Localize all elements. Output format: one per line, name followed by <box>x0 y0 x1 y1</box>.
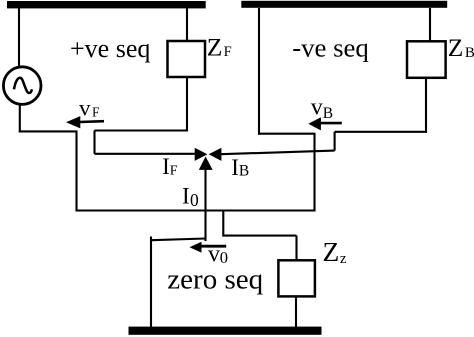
wire: ZB return horizontal <box>335 131 427 133</box>
wire: IF horizontal to junction <box>95 153 197 155</box>
arrow vF <box>66 116 80 128</box>
wire: slanted link from I0 to left drop <box>152 239 206 241</box>
arrow vB <box>308 117 321 130</box>
svg-text:F: F <box>92 105 100 120</box>
svg-text:zero seq: zero seq <box>167 263 263 295</box>
impedance ZF box <box>168 41 206 77</box>
svg-text:Z: Z <box>207 33 223 62</box>
impedance ZB box <box>407 41 446 78</box>
positive-sequence bus bar <box>7 1 206 8</box>
arrow head I0 <box>199 157 213 170</box>
wire: right vertical drop to common node <box>313 134 315 212</box>
zero-sequence reference bus bar <box>129 327 322 335</box>
svg-text:+ve seq: +ve seq <box>70 34 150 63</box>
svg-text:I: I <box>162 154 170 179</box>
wire: left vertical drop to common node <box>75 131 77 211</box>
svg-text:B: B <box>465 45 474 61</box>
wire: -ve bus down left side <box>258 8 260 135</box>
wire: -ve bus down to ZB <box>429 8 431 41</box>
AC source V1 circle <box>3 67 41 105</box>
wire: horizontal to Zz <box>223 235 296 237</box>
arrow head IF <box>195 148 208 161</box>
svg-text:0: 0 <box>220 248 228 267</box>
wire: I0 vertical from junction <box>204 168 206 241</box>
wire: IB slanted to junction <box>221 151 335 155</box>
wire: ZF bottom down <box>186 77 188 132</box>
svg-text:F: F <box>170 164 178 179</box>
wire: horizontal to vB node <box>258 133 316 135</box>
wire: short vertical at x=94.5 <box>93 131 95 154</box>
wire: +ve bus down to ZF <box>186 8 188 41</box>
svg-text:-ve seq: -ve seq <box>292 32 369 62</box>
wire: AC source bottom down <box>19 104 21 132</box>
wire: down into Zz top <box>295 236 297 261</box>
svg-text:Z: Z <box>448 33 464 62</box>
wire: common horizontal node <box>76 209 316 211</box>
svg-text:I: I <box>182 184 190 209</box>
wire: horizontal to vF node <box>19 130 78 132</box>
wire: +ve bus down to AC source <box>18 8 20 67</box>
svg-text:z: z <box>340 251 347 267</box>
svg-text:B: B <box>323 105 333 122</box>
svg-text:v: v <box>311 95 323 121</box>
svg-text:v: v <box>208 241 220 267</box>
wire: zero-seq left vertical to reference bar <box>150 237 152 328</box>
svg-text:F: F <box>224 44 232 60</box>
negative-sequence bus bar <box>241 1 447 8</box>
arrow v0 <box>190 242 202 253</box>
wire: short vertical at x=334.6 <box>334 132 336 151</box>
svg-text:0: 0 <box>190 190 199 210</box>
AC source sine wave <box>14 78 32 93</box>
svg-text:B: B <box>239 163 249 180</box>
wire: ZB bottom down <box>425 78 427 133</box>
wire: Zz bottom to reference bar <box>295 296 297 327</box>
svg-text:v: v <box>79 95 91 120</box>
svg-text:I: I <box>231 155 239 180</box>
wire: stub down from common node <box>222 211 224 237</box>
arrow head IB <box>209 148 222 161</box>
impedance Zz box <box>278 260 315 296</box>
svg-text:Z: Z <box>323 236 340 267</box>
wire: ZF return horizontal <box>95 129 189 131</box>
